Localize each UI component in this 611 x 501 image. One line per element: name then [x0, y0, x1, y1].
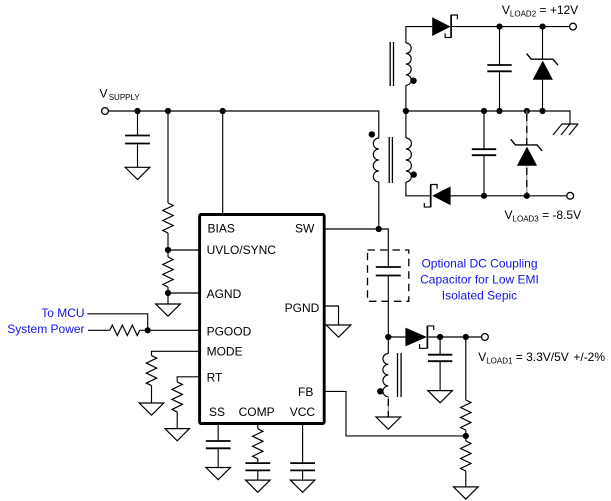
wire -8.5V output: [451, 195, 567, 197]
wire C_VCC bottom: [302, 470, 304, 480]
svg-text:RT: RT: [207, 371, 223, 385]
dot L1 phase: [377, 388, 383, 394]
wire C_IN top: [137, 111, 139, 136]
transformer T1 secondary: [406, 138, 412, 182]
junction dot Z2 top: [539, 24, 545, 30]
wire L2 top to diode: [406, 27, 432, 43]
junction dot R divider top: [463, 334, 469, 340]
wire AGND stub: [168, 292, 199, 294]
resistor R4: [461, 441, 471, 471]
ground PGND: [326, 325, 351, 337]
wire +12V output: [452, 26, 570, 28]
earth ground: [553, 124, 578, 135]
wire R_MODE to ground: [151, 386, 153, 403]
zener Z2: [527, 54, 558, 80]
wire Z2 top: [542, 27, 544, 60]
wire rail to R_UVLO: [167, 111, 169, 203]
transformer T1 core: [389, 137, 392, 183]
zener Z3: [511, 139, 542, 165]
resistor R_RT: [172, 382, 182, 412]
junction dot C3 out: [481, 193, 487, 199]
wire L1 top: [387, 337, 389, 354]
node VSUPPLY terminal: [102, 108, 109, 115]
svg-text:FB: FB: [298, 385, 313, 399]
svg-text:VCC: VCC: [290, 405, 316, 419]
wire C2 top: [499, 27, 501, 65]
capacitor C_COMP: [245, 463, 270, 470]
node UVLO junction dot: [165, 247, 171, 253]
ground AGND: [156, 304, 181, 316]
dot L2 phase: [410, 78, 416, 84]
dot primary phase: [369, 131, 375, 137]
wire L2 bottom to rail: [405, 85, 407, 111]
wire SW stub: [325, 228, 379, 230]
diode D3 schottky: [424, 184, 450, 207]
ground SS: [206, 468, 231, 480]
wire PGOOD stub: [140, 329, 199, 331]
inductor L1 core: [398, 353, 402, 397]
wire VLOAD1 output: [428, 336, 481, 338]
resistor R_UVLO upper: [163, 203, 173, 233]
wire secondary top: [405, 111, 407, 138]
wire SW jog to coupling cap: [379, 229, 389, 267]
svg-text:AGND: AGND: [207, 287, 242, 301]
wire RT stub: [177, 377, 199, 382]
capacitor C_VCC: [290, 463, 315, 470]
dot secondary phase: [411, 171, 417, 177]
wire R4 to ground: [465, 471, 467, 487]
ground MODE: [139, 403, 164, 415]
ground RT: [165, 429, 190, 441]
node AGND junction dot: [165, 290, 171, 296]
wire R3 top: [465, 337, 467, 400]
junction dot C3 rail: [481, 108, 487, 114]
node FB junction dot: [463, 433, 469, 439]
wire C_IN bottom: [137, 144, 139, 168]
junction dot Z3 out: [524, 193, 530, 199]
diode D1 schottky: [405, 326, 433, 349]
ground L1: [376, 417, 401, 429]
wire BIAS pin: [222, 111, 224, 214]
junction dot C1: [437, 334, 443, 340]
node SW junction dot: [376, 226, 382, 232]
ground COMP: [245, 480, 270, 492]
svg-text:MODE: MODE: [207, 345, 243, 359]
svg-text:Optional DC Coupling: Optional DC Coupling: [421, 257, 537, 271]
wire mid rail: [406, 111, 570, 124]
svg-text:Isolated Sepic: Isolated Sepic: [442, 289, 517, 303]
inductor L1: [383, 354, 388, 397]
wire coupling cap bottom: [387, 276, 389, 338]
wire Z3 bottom: [526, 166, 528, 196]
transformer T1 primary: [373, 138, 379, 182]
resistor R_UVLO lower: [163, 257, 173, 287]
junction dot C2 top: [496, 24, 502, 30]
wire primary bottom: [378, 182, 380, 229]
wire VSUPPLY rail to primary: [108, 111, 378, 138]
wire UVLO stub: [168, 249, 199, 251]
optional box dashed: [368, 250, 409, 301]
wire To MCU: [87, 314, 147, 331]
svg-text:To MCU: To MCU: [41, 306, 84, 320]
ground VCC: [290, 480, 315, 492]
svg-text:Capacitor for Low EMI: Capacitor for Low EMI: [420, 273, 539, 287]
resistor R_MODE: [146, 356, 156, 386]
junction dot C2 rail: [496, 108, 502, 114]
node PGOOD junction dot: [145, 327, 151, 333]
wire R3 to FB node: [465, 430, 467, 441]
wire System Power lead: [88, 329, 110, 331]
capacitor C2: [487, 65, 511, 71]
wire C_COMP bottom: [257, 470, 259, 480]
capacitor C_IN: [125, 136, 150, 144]
wire SS pin: [217, 424, 219, 441]
wire R_RT to ground: [176, 412, 178, 429]
capacitor C3: [472, 149, 496, 155]
svg-text:SS: SS: [209, 405, 225, 419]
resistor R3: [461, 400, 471, 430]
wire PGND stub: [325, 306, 339, 325]
wire L1 bottom: [387, 397, 389, 417]
wire FB net: [325, 391, 466, 436]
svg-text:BIAS: BIAS: [208, 222, 235, 236]
wire COMP pin: [257, 424, 259, 429]
resistor R_COMP: [253, 429, 263, 459]
ground R4: [454, 487, 479, 499]
svg-text:PGND: PGND: [285, 301, 320, 315]
ground C1: [428, 391, 453, 403]
junction dot Z3 rail: [524, 108, 530, 114]
wire Z2 bottom: [542, 80, 544, 111]
svg-text:UVLO/SYNC: UVLO/SYNC: [207, 243, 277, 257]
svg-text:System Power: System Power: [7, 322, 84, 336]
junction dot mid rail left: [403, 108, 409, 114]
wire Z3 top: [526, 111, 528, 145]
wire C1 top: [439, 337, 441, 355]
node -8.5V terminal: [567, 192, 574, 199]
wire R_COMP to cap: [257, 459, 259, 463]
wire MODE stub: [152, 351, 200, 355]
wire R lower to AGND node: [167, 287, 169, 304]
wire R upper to junction: [167, 233, 169, 257]
op IC U1 body: [200, 215, 325, 424]
svg-text:SW: SW: [295, 222, 315, 236]
svg-text:COMP: COMP: [239, 405, 275, 419]
node +12V terminal: [570, 23, 577, 30]
node coupling bottom junction dot: [385, 334, 391, 340]
diode D2 schottky: [432, 15, 457, 38]
wire C3 bottom: [483, 155, 485, 196]
wire C1 bottom: [439, 361, 441, 390]
wire C_SS bottom: [217, 448, 219, 467]
junction dot at BIAS: [220, 108, 226, 114]
junction dot at divider: [165, 108, 171, 114]
wire to D1: [388, 336, 405, 338]
winding L2 core: [390, 42, 393, 86]
node VLOAD1 terminal: [482, 334, 489, 341]
wire VCC pin: [302, 424, 304, 463]
junction dot at C_IN: [134, 108, 140, 114]
capacitor C_COUPLE: [376, 267, 401, 276]
capacitor C1: [428, 355, 452, 362]
wire C2 bottom: [499, 71, 501, 111]
junction dot Z2 rail: [539, 108, 545, 114]
resistor R_PGOOD: [110, 325, 140, 335]
capacitor C_SS: [206, 441, 231, 448]
winding L2 upper: [406, 43, 411, 85]
svg-text:PGOOD: PGOOD: [207, 325, 252, 339]
wire C3 top: [483, 111, 485, 149]
wire secondary bottom: [406, 182, 431, 196]
ground C_IN: [125, 167, 150, 179]
